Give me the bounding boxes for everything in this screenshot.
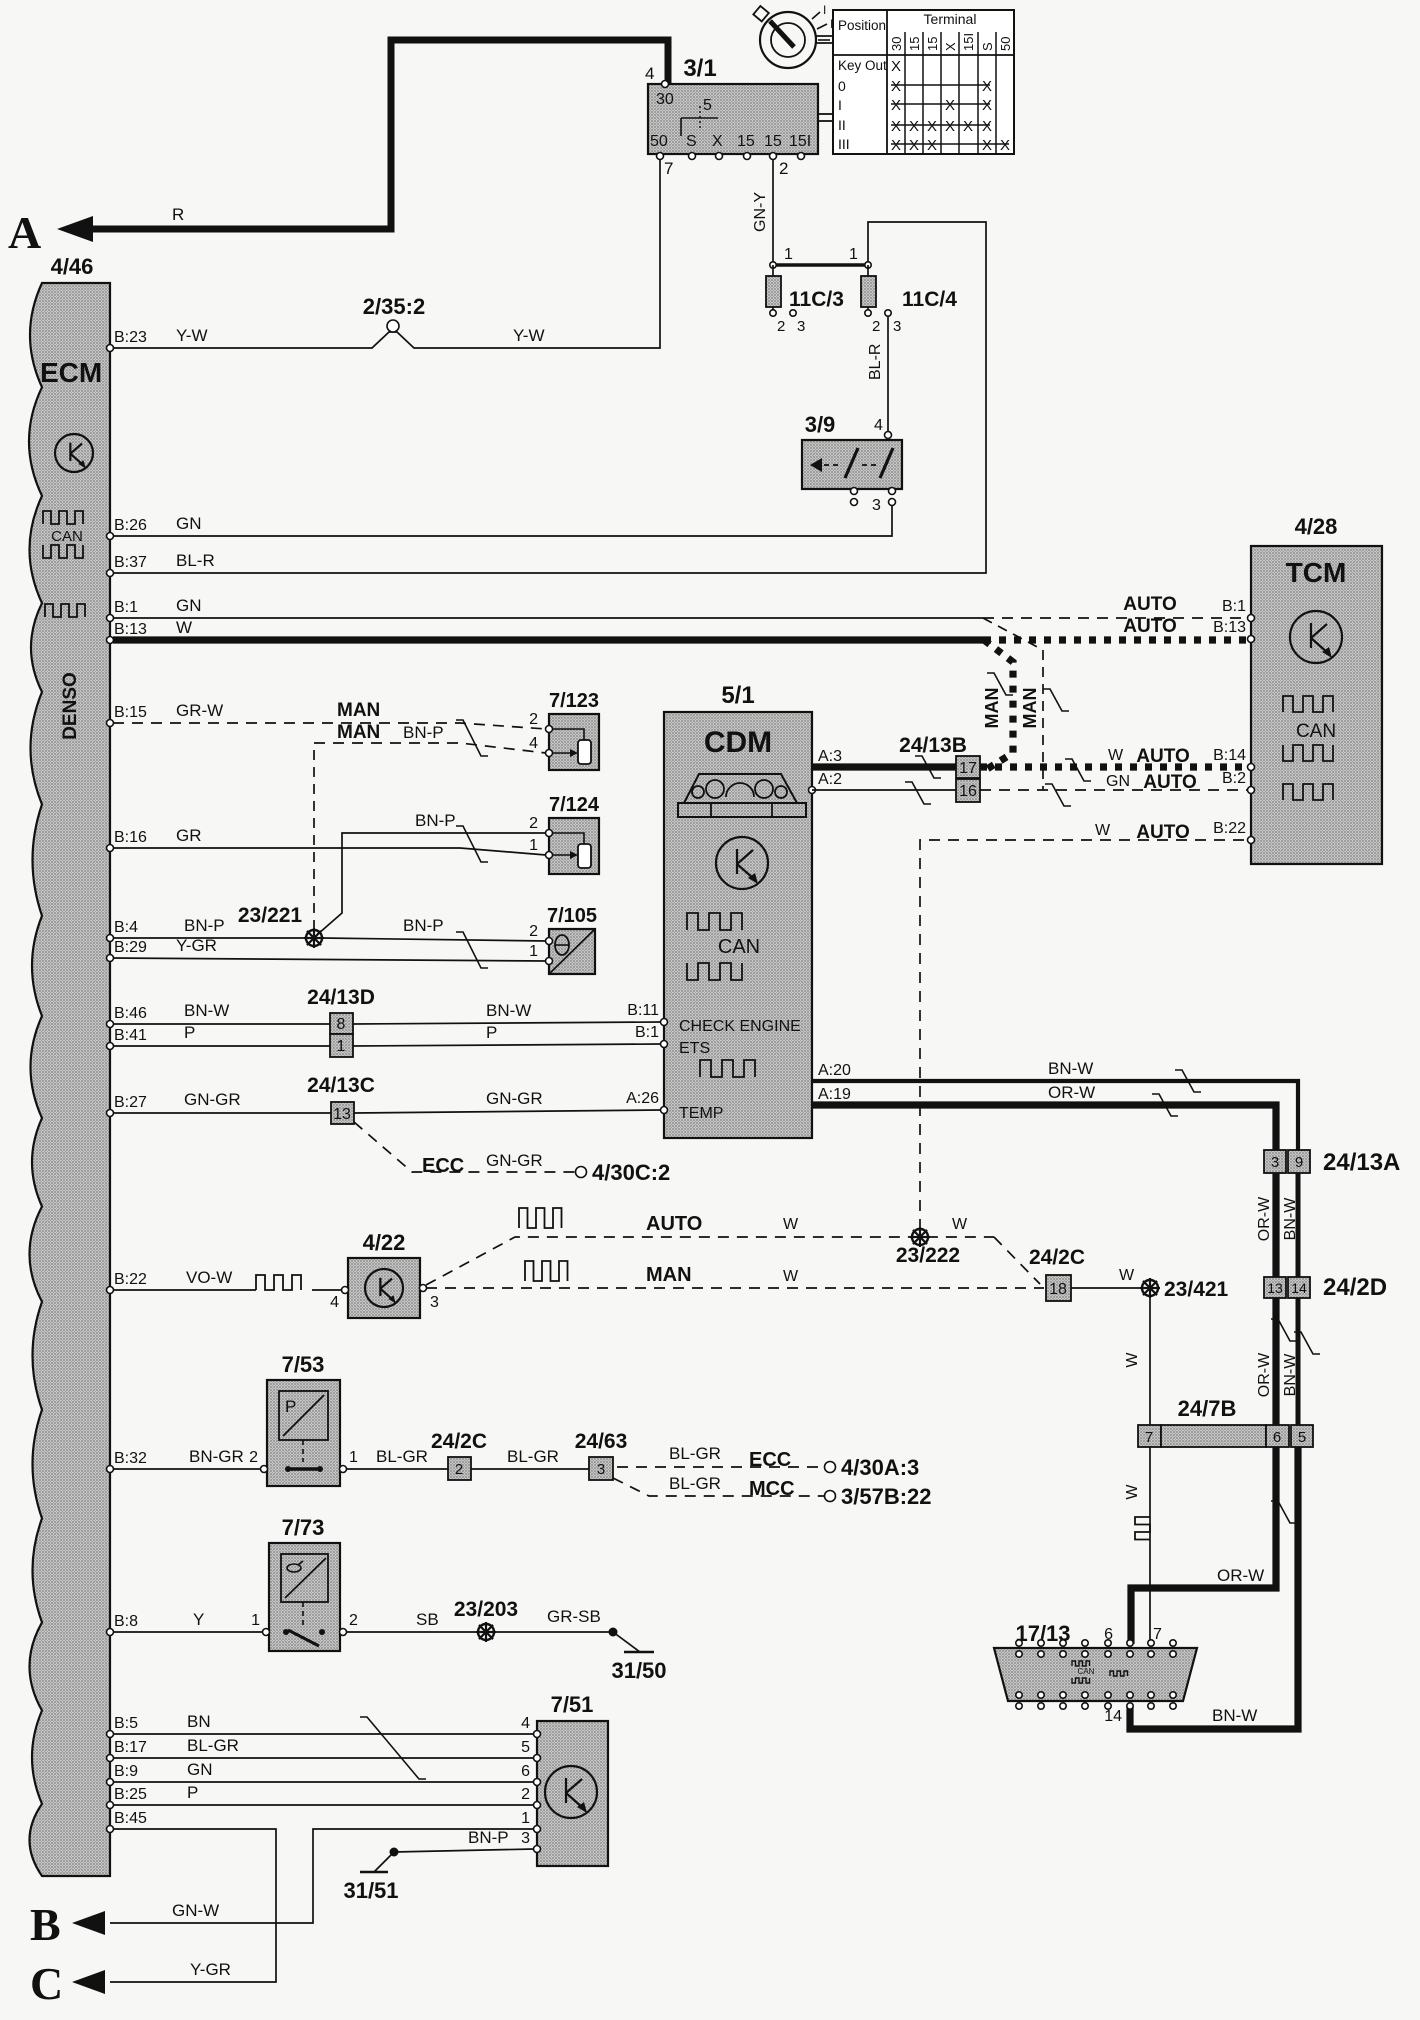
svg-text:CAN: CAN (1296, 721, 1336, 742)
wire BL-GR ECC dashed to 4/30A:3 (617, 1466, 825, 1468)
svg-text:B:45: B:45 (114, 1810, 147, 1827)
wire GR-W MAN dashed from ECM B:15 to 7/123 pin 2 (113, 723, 546, 729)
CDM K symbol (716, 837, 768, 889)
svg-text:I: I (823, 3, 826, 17)
svg-text:II: II (838, 117, 846, 133)
wire W from splice 23/421 to 24/7B pin 7 (1149, 1296, 1151, 1425)
node 4/30A:3 (825, 1462, 836, 1473)
svg-text:2: 2 (349, 1612, 358, 1629)
svg-text:Y-GR: Y-GR (190, 1960, 231, 1979)
svg-text:MAN: MAN (646, 1264, 692, 1286)
svg-text:15I: 15I (961, 33, 976, 51)
svg-text:GR-W: GR-W (176, 701, 223, 720)
wire from ECM B:45 to arrow C (110, 1829, 276, 1982)
wire BL-R from fuse 11C/4 pin 3 to switch 3/9 pin 4 (887, 316, 889, 432)
svg-text:BN-W: BN-W (1212, 1706, 1257, 1725)
svg-text:B:4: B:4 (114, 919, 138, 936)
ECM pin B:17 (107, 1755, 114, 1762)
relay 7/73 box (269, 1543, 340, 1651)
svg-text:P: P (187, 1783, 198, 1802)
svg-text:3: 3 (872, 497, 881, 514)
svg-text:OR-W: OR-W (1256, 1196, 1273, 1241)
svg-text:4: 4 (874, 417, 883, 434)
svg-text:BL-R: BL-R (176, 551, 215, 570)
7/51 pin 1 (534, 1826, 541, 1833)
table X marks row II (891, 124, 990, 126)
svg-text:3/1: 3/1 (683, 55, 716, 82)
svg-text:24/13B: 24/13B (899, 734, 967, 757)
svg-text:GN: GN (176, 514, 202, 533)
svg-text:B:25: B:25 (114, 1786, 147, 1803)
svg-text:OR-W: OR-W (1217, 1566, 1264, 1585)
svg-text:B:37: B:37 (114, 554, 147, 571)
svg-text:X: X (982, 97, 992, 114)
7/53 pin 1 (340, 1466, 347, 1473)
wire OR-W thick from CDM A:19 down right side (812, 1105, 1276, 1150)
svg-text:9: 9 (1295, 1154, 1303, 1171)
svg-text:GN: GN (1106, 773, 1130, 790)
svg-text:S: S (980, 42, 995, 51)
svg-text:X: X (982, 118, 992, 135)
svg-text:GR-SB: GR-SB (547, 1607, 601, 1626)
wire GN-GR from ECM B:27 to CDM A:26 (113, 1112, 331, 1114)
7/73 switch blade (288, 1630, 319, 1646)
wire OR-W from 24/7B pin 6 to 17/13 pin 6 (1131, 1447, 1276, 1644)
svg-text:24/13A: 24/13A (1323, 1149, 1400, 1176)
svg-text:BN-W: BN-W (1282, 1353, 1299, 1397)
wire VO-W from ECM B:22 to 4/22 pin 4 (113, 1289, 256, 1291)
svg-text:50: 50 (650, 133, 668, 150)
connector 17/13 (994, 1648, 1197, 1701)
svg-text:GN: GN (187, 1760, 213, 1779)
splice 23/221 (306, 930, 322, 946)
svg-text:CHECK ENGINE: CHECK ENGINE (679, 1018, 801, 1035)
svg-text:B: B (30, 1899, 61, 1950)
switch 3/9 box (802, 440, 902, 489)
svg-text:W: W (1119, 1267, 1135, 1284)
CDM module 5/1 block (664, 712, 812, 1138)
svg-text:W: W (176, 618, 192, 637)
wire P from ECM B:41 to CDM B:1 (113, 1045, 330, 1047)
table X marks row 0 (891, 84, 990, 86)
ECM pin B:45 (107, 1826, 114, 1833)
svg-text:2: 2 (529, 711, 538, 728)
table X marks row III (891, 143, 1009, 145)
svg-text:3: 3 (893, 318, 901, 335)
CDM pin B:1 (661, 1041, 668, 1048)
wire AUTO thick dotted to TCM B:13 (984, 636, 1248, 643)
svg-text:BL-GR: BL-GR (376, 1447, 428, 1466)
svg-text:4/46: 4/46 (51, 254, 94, 279)
svg-text:B:17: B:17 (114, 1739, 147, 1756)
svg-text:W: W (1124, 1352, 1141, 1368)
17/13 pins (1016, 1640, 1022, 1646)
svg-text:13: 13 (333, 1106, 351, 1123)
7/124 pin 2 (546, 830, 553, 837)
connector 2/35:2 (387, 320, 399, 332)
svg-text:50: 50 (998, 37, 1013, 51)
wire from fuse 11C/4 pin 1 to ECM B:37 (113, 222, 986, 573)
ECM pin B:16 (107, 845, 114, 852)
svg-text:TEMP: TEMP (679, 1105, 723, 1122)
svg-text:1: 1 (849, 246, 858, 263)
wire AUTO dashed to TCM B:1 (983, 617, 1248, 619)
svg-text:AUTO: AUTO (1136, 822, 1189, 843)
wire MAN branch thick dotted vertical (984, 640, 1013, 769)
svg-text:B:29: B:29 (114, 939, 147, 956)
CDM square wave symbol (700, 1060, 755, 1077)
svg-text:TCM: TCM (1286, 557, 1347, 588)
svg-text:B:1: B:1 (635, 1024, 659, 1041)
svg-text:24/2D: 24/2D (1323, 1274, 1387, 1301)
svg-text:X: X (945, 118, 955, 135)
svg-text:B:46: B:46 (114, 1005, 147, 1022)
table column separators (904, 32, 906, 154)
svg-text:X: X (891, 78, 901, 95)
svg-text:ETS: ETS (679, 1040, 710, 1057)
TCM pin B:2 (1248, 787, 1255, 794)
svg-text:5: 5 (1298, 1429, 1306, 1446)
svg-text:11C/3: 11C/3 (789, 288, 844, 311)
svg-text:B:5: B:5 (114, 1715, 138, 1732)
wire W from 24/7B pin 7 to 17/13 pin 7 (1149, 1447, 1151, 1644)
svg-text:3: 3 (1271, 1154, 1279, 1171)
svg-text:7/123: 7/123 (549, 690, 599, 712)
TCM module 4/28 block (1251, 546, 1382, 864)
svg-text:4/30A:3: 4/30A:3 (841, 1455, 919, 1480)
7/123 pin 2 (546, 726, 553, 733)
svg-text:15: 15 (907, 37, 922, 51)
svg-text:13: 13 (1267, 1280, 1283, 1296)
svg-text:ECC: ECC (749, 1449, 791, 1471)
svg-text:Position: Position (838, 18, 886, 33)
svg-text:B:8: B:8 (114, 1613, 138, 1630)
svg-text:B:14: B:14 (1213, 747, 1246, 764)
svg-text:18: 18 (1049, 1281, 1067, 1298)
svg-text:3/9: 3/9 (805, 412, 836, 437)
svg-text:BN-W: BN-W (184, 1001, 229, 1020)
ECM pin B:5 (107, 1731, 114, 1738)
ground 31/51 (390, 1848, 399, 1857)
svg-text:BN: BN (187, 1712, 211, 1731)
ECM module 4/46 block (29, 283, 110, 1876)
svg-text:B:27: B:27 (114, 1094, 147, 1111)
ECM pin B:46 (107, 1021, 114, 1028)
svg-text:X: X (943, 42, 958, 51)
svg-text:7/53: 7/53 (282, 1352, 325, 1377)
wire BN-W from ECM B:46 to CDM B:11 (113, 1023, 330, 1025)
svg-text:B:23: B:23 (114, 329, 147, 346)
svg-text:X: X (891, 97, 901, 114)
svg-text:7/51: 7/51 (551, 1692, 594, 1717)
ECM pin B:29 (107, 955, 114, 962)
ECM pin B:41 (107, 1043, 114, 1050)
sensor 7/105 box (549, 929, 595, 974)
svg-text:W: W (1095, 822, 1111, 839)
terminal table frame (833, 10, 1014, 154)
svg-text:R: R (172, 205, 184, 224)
svg-text:AUTO: AUTO (1136, 746, 1189, 767)
jog mark on MAN wires (456, 720, 488, 756)
wire BN-W from CDM A:20 down right side (812, 1081, 1298, 1150)
jog marks on MAN wires (987, 673, 1013, 695)
svg-text:24/7B: 24/7B (1178, 1396, 1237, 1421)
TCM pin B:22 (1248, 837, 1255, 844)
svg-text:15: 15 (737, 133, 755, 150)
wire GN from CDM A:2 to connector 24/13B pin 16 (812, 789, 956, 791)
svg-text:BL-GR: BL-GR (507, 1447, 559, 1466)
svg-text:30: 30 (656, 91, 674, 108)
svg-text:4/28: 4/28 (1295, 514, 1338, 539)
svg-text:X: X (891, 58, 901, 75)
svg-text:5: 5 (703, 97, 712, 114)
svg-text:X: X (909, 137, 919, 154)
svg-text:3: 3 (797, 318, 805, 335)
svg-text:1: 1 (521, 1810, 530, 1827)
svg-text:BL-GR: BL-GR (669, 1474, 721, 1493)
TCM CAN symbol (1283, 696, 1333, 712)
TCM K symbol (1290, 611, 1342, 663)
wire BN-P MAN dashed from splice 23/221 to 7/123 pin 4 (314, 743, 546, 753)
switch 3/9 internals (810, 458, 822, 472)
svg-text:B:1: B:1 (1222, 598, 1246, 615)
svg-text:A:3: A:3 (818, 748, 842, 765)
7/123 pin 4 (546, 750, 553, 757)
svg-text:X: X (927, 137, 937, 154)
wire from 7/51 pin 1 to arrow B (110, 1829, 534, 1923)
wire GN-Y from ignition switch 15 to fuse 11C/3 (772, 159, 774, 265)
7/105 pin 2 (546, 938, 553, 945)
svg-text:B:11: B:11 (627, 1002, 659, 1019)
svg-text:BN-P: BN-P (415, 811, 456, 830)
svg-text:11C/4: 11C/4 (902, 288, 957, 311)
wire OR-W 24/13A to 24/2D (1272, 1173, 1279, 1277)
wire OR-W 24/2D to 24/7B (1272, 1298, 1279, 1425)
svg-text:30: 30 (889, 37, 904, 51)
7/53 contact (290, 1467, 318, 1470)
splice 23/222 (912, 1229, 928, 1245)
svg-text:3: 3 (521, 1830, 530, 1847)
wire MAN branch thin dashed vertical (983, 618, 1043, 790)
svg-text:GN-W: GN-W (172, 1901, 219, 1920)
svg-text:B:41: B:41 (114, 1027, 147, 1044)
fuse 11C/4 (861, 276, 876, 307)
svg-text:23/421: 23/421 (1164, 1278, 1229, 1301)
svg-text:2: 2 (779, 159, 788, 178)
connector 24/13A (1264, 1150, 1286, 1173)
ground 31/50 (624, 1651, 654, 1654)
svg-text:3/57B:22: 3/57B:22 (841, 1484, 932, 1509)
svg-text:W: W (783, 1216, 799, 1233)
svg-text:A:19: A:19 (818, 1086, 851, 1103)
svg-text:AUTO: AUTO (646, 1213, 702, 1235)
wire BN-P from ground 31/51 to 7/51 pin 3 (394, 1849, 534, 1852)
table X marks row I (891, 103, 990, 105)
svg-text:OR-W: OR-W (1256, 1352, 1273, 1397)
svg-text:I: I (838, 97, 842, 113)
svg-text:BN-P: BN-P (468, 1828, 509, 1847)
wire AUTO dashed from 4/22 pin 3 (426, 1237, 994, 1285)
svg-text:CAN: CAN (718, 936, 760, 958)
ECM pin B:27 (107, 1110, 114, 1117)
fuse 11C/3 (766, 276, 781, 307)
svg-text:23/222: 23/222 (896, 1244, 960, 1267)
svg-text:14: 14 (1291, 1280, 1307, 1296)
svg-text:24/2C: 24/2C (1029, 1246, 1085, 1269)
svg-text:AUTO: AUTO (1143, 772, 1196, 793)
svg-text:GN-Y: GN-Y (752, 192, 769, 232)
ECM pin B:25 (107, 1802, 114, 1809)
ECM pin B:9 (107, 1779, 114, 1786)
CDM pin A:2 (809, 787, 816, 794)
splice 23/421 (1142, 1280, 1158, 1296)
svg-text:B:13: B:13 (114, 621, 147, 638)
7/53 pin 2 (261, 1466, 268, 1473)
svg-text:2/35:2: 2/35:2 (363, 294, 425, 319)
wire BN-W from 24/7B pin 5 to 17/13 pin 14 (1130, 1447, 1298, 1729)
4/22 pin 3 (420, 1285, 427, 1292)
svg-text:BL-R: BL-R (867, 344, 884, 380)
wire SB from 7/73 pin 2 to splice 23/203 (346, 1631, 478, 1633)
svg-text:7: 7 (1145, 1429, 1153, 1446)
svg-text:BN-P: BN-P (403, 723, 444, 742)
svg-text:24/13C: 24/13C (307, 1074, 375, 1097)
svg-text:16: 16 (959, 783, 977, 800)
ECM pin B:26 (107, 533, 114, 540)
ECM CAN symbol (43, 511, 83, 524)
ECM pin B:8 (107, 1629, 114, 1636)
svg-text:III: III (838, 136, 850, 152)
ECM pin B:37 (107, 570, 114, 577)
svg-text:2: 2 (872, 318, 880, 335)
svg-text:5: 5 (521, 1739, 530, 1756)
svg-text:24/13D: 24/13D (307, 986, 375, 1009)
svg-text:A:26: A:26 (626, 1090, 659, 1107)
solenoid 7/123 box (549, 714, 599, 770)
wire GN from ECM B:9 to 7/51 pin 6 (113, 1781, 534, 1783)
ignition switch bottom pins (657, 153, 664, 160)
svg-text:1: 1 (349, 1449, 358, 1466)
svg-text:MAN: MAN (337, 722, 380, 743)
wire W thick from CDM A:3 to connector 24/13B pin 17 (812, 763, 956, 770)
connector 24/2D (1264, 1277, 1286, 1298)
svg-text:ECC: ECC (422, 1155, 464, 1177)
4/22 pin 4 (342, 1287, 349, 1294)
svg-text:GN-GR: GN-GR (486, 1089, 543, 1108)
ignition switch 3/1 box (648, 84, 818, 154)
wire BN from ECM B:5 to 7/51 pin 4 (113, 1733, 534, 1735)
svg-text:2: 2 (455, 1461, 463, 1478)
svg-text:DENSO: DENSO (60, 672, 81, 740)
svg-text:8: 8 (337, 1016, 346, 1033)
svg-text:CAN: CAN (1078, 1667, 1095, 1676)
svg-text:7: 7 (1153, 1626, 1162, 1643)
svg-text:4: 4 (521, 1715, 530, 1732)
svg-text:GN-GR: GN-GR (486, 1151, 543, 1170)
key symbol (760, 12, 816, 68)
wire W from 24/2C to splice 23/421 (1071, 1287, 1142, 1289)
svg-text:OR-W: OR-W (1048, 1083, 1095, 1102)
svg-text:Key Out: Key Out (838, 58, 887, 73)
svg-text:B:22: B:22 (114, 1271, 147, 1288)
splice 23/203 (478, 1624, 494, 1640)
node 3/57B:22 (825, 1491, 836, 1502)
svg-text:2: 2 (529, 815, 538, 832)
svg-text:GR: GR (176, 826, 202, 845)
svg-text:31/51: 31/51 (343, 1878, 398, 1903)
wire BL-GR from 7/53 pin 1 to 24/2C pin 2 (346, 1468, 448, 1470)
wire ECC dashed to 4/30C:2 (354, 1122, 576, 1172)
svg-text:CDM: CDM (704, 726, 772, 759)
wire W AUTO thick dotted from 24/13B to TCM B:14 (980, 763, 1248, 770)
ECM pin B:23 (107, 345, 114, 352)
stub lines from switch to table (816, 35, 833, 37)
svg-text:GN: GN (176, 596, 202, 615)
wire GN from ECM B:1 (solid part) (113, 617, 983, 619)
svg-text:1: 1 (529, 837, 538, 854)
svg-text:X: X (1000, 137, 1010, 154)
svg-text:1: 1 (529, 943, 538, 960)
svg-text:7: 7 (664, 159, 673, 178)
wire R (thick) from A arrow to ignition switch 3/1 pin 4 (90, 40, 668, 229)
svg-text:15: 15 (925, 37, 940, 51)
CDM CAN symbol (687, 913, 742, 930)
svg-text:MAN: MAN (982, 688, 1002, 729)
svg-text:BN-P: BN-P (184, 916, 225, 935)
svg-text:A:2: A:2 (818, 771, 842, 788)
wire Y-W from ECM B:23 to ignition switch 50 (113, 159, 660, 348)
node 4/30C:2 (576, 1167, 587, 1178)
svg-text:BN-P: BN-P (403, 916, 444, 935)
svg-text:BN-W: BN-W (486, 1001, 531, 1020)
CDM dashboard symbol (684, 774, 797, 803)
svg-text:Y-W: Y-W (513, 326, 545, 345)
relay 7/53 box (267, 1380, 340, 1486)
svg-text:VO-W: VO-W (186, 1268, 232, 1287)
ECM square wave symbol (45, 604, 85, 617)
svg-text:6: 6 (521, 1763, 530, 1780)
7/73 pin 2 (340, 1629, 347, 1636)
key position ticks I II III (812, 12, 820, 19)
svg-text:AUTO: AUTO (1123, 616, 1176, 637)
ECM pin B:15 (107, 720, 114, 727)
svg-text:24/2C: 24/2C (431, 1430, 487, 1453)
svg-text:B:16: B:16 (114, 829, 147, 846)
svg-text:0: 0 (838, 78, 846, 94)
wire MAN dashed from 4/22 pin 3 to 24/2C pin 18 (426, 1287, 1044, 1289)
TCM pin B:14 (1248, 764, 1255, 771)
wire W from ECM B:13 (thick) (113, 636, 984, 643)
svg-text:S: S (686, 133, 697, 150)
svg-text:BL-GR: BL-GR (669, 1444, 721, 1463)
wire BN-GR from ECM B:32 to 7/53 pin 2 (113, 1468, 261, 1470)
wire BN-W 24/13A to 24/2D (1296, 1173, 1301, 1277)
svg-text:4/30C:2: 4/30C:2 (592, 1160, 670, 1185)
svg-text:7/73: 7/73 (282, 1515, 325, 1540)
svg-text:P: P (184, 1023, 195, 1042)
7/124 pin 1 (546, 852, 553, 859)
svg-text:1: 1 (337, 1038, 346, 1055)
wire BL-GR MCC dashed to 3/57B:22 (613, 1478, 825, 1496)
svg-text:MCC: MCC (749, 1478, 795, 1500)
svg-text:15I: 15I (789, 133, 811, 150)
svg-text:X: X (982, 78, 992, 95)
wire Y-GR from ECM B:29 to 7/105 pin 1 (113, 958, 546, 961)
7/51 pin 3 (534, 1846, 541, 1853)
svg-text:X: X (712, 133, 723, 150)
wire P from ECM B:25 to 7/51 pin 2 (113, 1804, 534, 1806)
wire BN-P from 7/124 pin 2 to splice 23/221 (318, 833, 546, 934)
